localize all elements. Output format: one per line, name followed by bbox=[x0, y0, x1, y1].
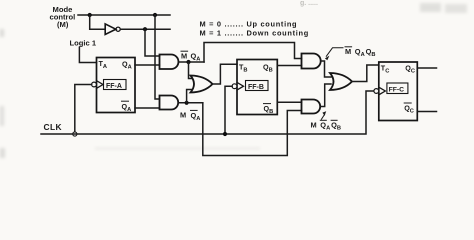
svg-text:FF-C: FF-C bbox=[389, 87, 405, 94]
scan artifact: faint noise row bbox=[95, 147, 260, 150]
wire QBbar to AND G5 bbox=[277, 101, 301, 103]
clock input wedge FF-A bbox=[97, 81, 104, 89]
wire M rail from Mode control bbox=[78, 14, 170, 16]
svg-text:g. .....: g. ..... bbox=[300, 0, 318, 7]
scan artifact: top-right gray patches bbox=[420, 3, 467, 13]
node junction dot on Mbar rail bbox=[143, 27, 147, 31]
label Mode control (M) bbox=[50, 5, 76, 29]
wire MQAbar bottom route to AND G5 bbox=[203, 103, 302, 156]
wire FF-B clock to CLK bbox=[225, 86, 232, 134]
wire MbarQA top route to AND G4 bbox=[204, 43, 302, 63]
wire Mbar drop to AND G1 input bbox=[145, 29, 160, 56]
AND gate G4 bbox=[302, 54, 321, 69]
wire AND G5 output to OR G6 bbox=[321, 84, 331, 107]
AND gate G1 bbox=[160, 55, 179, 70]
AND gate G2 bbox=[160, 96, 179, 110]
label M QAbar QBbar with arrow bbox=[311, 111, 342, 131]
wire QB to AND G4 bbox=[277, 65, 301, 67]
wire M down to inverter input bbox=[90, 15, 105, 29]
clock input wedge FF-C bbox=[379, 87, 386, 95]
OR gate G6 bbox=[330, 73, 352, 90]
wire CLK line bbox=[41, 91, 374, 134]
svg-text:M: M bbox=[181, 51, 187, 60]
wire QC output bbox=[417, 67, 436, 69]
wire OR G3 output to TB bbox=[213, 64, 238, 84]
svg-text:Logic 1: Logic 1 bbox=[70, 39, 97, 48]
label Mbar QA QB with arrow bbox=[325, 47, 376, 60]
clock input wedge FF-B bbox=[237, 82, 244, 90]
svg-text:M: M bbox=[180, 111, 186, 120]
svg-text:(M): (M) bbox=[57, 20, 69, 29]
flip-flop FF-B bbox=[232, 60, 277, 116]
wire Logic 1 to TA bbox=[79, 47, 96, 62]
wire QAbar to AND G2 bbox=[135, 107, 160, 109]
wire G2 dot up to OR G3 bbox=[187, 90, 192, 103]
svg-text:A: A bbox=[326, 125, 330, 131]
flip-flop FF-C bbox=[374, 62, 417, 121]
svg-text:M = 1 ....... Down counting: M = 1 ....... Down counting bbox=[200, 29, 309, 38]
svg-text:A: A bbox=[361, 52, 365, 58]
wire AND G4 output to OR G6 bbox=[321, 61, 331, 77]
node dot on G2 output bbox=[185, 101, 189, 105]
svg-text:M = 0 ....... Up counting: M = 0 ....... Up counting bbox=[200, 19, 298, 28]
wire G1 dot down to OR G3 bbox=[189, 62, 192, 79]
svg-text:M: M bbox=[311, 120, 317, 129]
label M QAbar bbox=[180, 110, 200, 122]
svg-text:FF-A: FF-A bbox=[106, 83, 122, 90]
label Mbar QA bbox=[181, 51, 200, 62]
svg-text:FF-B: FF-B bbox=[248, 84, 264, 91]
node junction dot on M rail bbox=[153, 13, 157, 17]
flip-flop FF-A bbox=[92, 58, 135, 113]
inverter U1 bbox=[105, 24, 120, 35]
wire QCbar output bbox=[417, 111, 436, 113]
wire Mbar rail from inverter output bbox=[120, 28, 170, 30]
node dot FF-B clock on CLK bbox=[223, 132, 227, 136]
node open junction on CLK bbox=[73, 132, 77, 136]
wire M drop to AND G2 input bbox=[155, 15, 160, 99]
wire FF-A clock to CLK line bbox=[75, 85, 92, 133]
AND gate G5 bbox=[302, 100, 321, 114]
svg-text:CLK: CLK bbox=[44, 122, 62, 132]
node dot on G1 output bbox=[186, 60, 190, 64]
wire OR G6 output to TC bbox=[352, 65, 379, 82]
wire QA to AND G1 bbox=[135, 64, 160, 66]
wire AND G1 output bbox=[179, 61, 205, 63]
svg-text:M: M bbox=[345, 47, 351, 56]
svg-text:B: B bbox=[371, 52, 375, 58]
OR gate G3 bbox=[191, 76, 213, 93]
node junction dot M to inverter bbox=[88, 13, 92, 17]
svg-text:B: B bbox=[337, 125, 341, 131]
scan artifact: left edge smudges bbox=[0, 29, 5, 158]
wire AND G2 output bbox=[179, 102, 203, 104]
